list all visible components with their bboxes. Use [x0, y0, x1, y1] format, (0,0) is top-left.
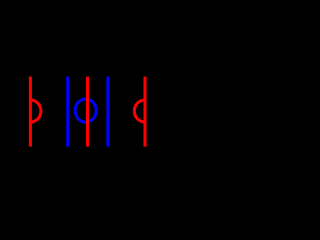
wire V1: vertical wire, insulated crossover (red): [29, 77, 32, 147]
wire V3: vertical wire through highlighted crossing (red): [86, 77, 89, 147]
wire H1: horizontal wire (black stroke, hidden against black background): [12, 109, 163, 112]
wire V2: vertical wire, plain crossing (blue): [66, 77, 69, 147]
wire V4: vertical wire, plain crossing (blue): [106, 77, 109, 147]
hop (bridge) crossover symbol on wire V1, bulging right: [30, 100, 41, 122]
node N1: highlight circle at crossing of wire V3 and wire H1 (blue): [75, 99, 96, 122]
wire V5: vertical wire, insulated crossover (red): [144, 77, 147, 147]
hop (bridge) crossover symbol on wire V5, bulging left: [134, 100, 145, 122]
